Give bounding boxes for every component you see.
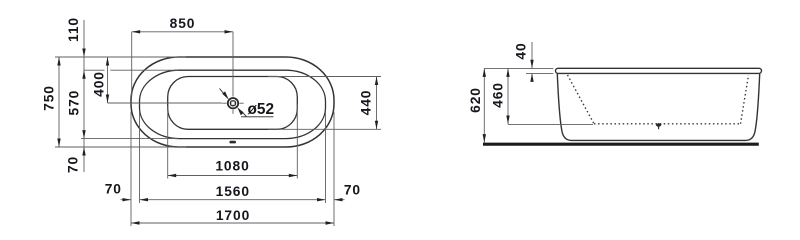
svg-text:40: 40 (513, 42, 528, 59)
extension line x139.5 (inner rim left, downwards) (139, 112, 141, 204)
svg-text:70: 70 (344, 183, 361, 198)
dimension 460 (side) (491, 68, 510, 124)
svg-text:110: 110 (66, 17, 81, 42)
dimension 70 left (plan bottom) (105, 181, 131, 201)
bathtub plan view: basin oval (168, 77, 298, 130)
extension line tub top (y57) (55, 56, 186, 58)
svg-text:1700: 1700 (216, 208, 250, 223)
extension line x167.7 (basin left, downwards) (167, 106, 169, 179)
side view: rim bar (556, 68, 762, 73)
dimension chain line 110/570/70 (plan left) (82, 20, 85, 172)
svg-text:400: 400 (91, 71, 106, 97)
side view: tub body outline (557, 74, 759, 141)
side view: floor line (483, 143, 759, 146)
bathtub plan view: outer rim oval (131, 57, 334, 147)
svg-text:1560: 1560 (216, 184, 250, 199)
extension line x131 (tub left, downwards) (130, 112, 132, 227)
side view: interior right wall (hidden, dashed) (741, 75, 749, 124)
svg-text:70: 70 (66, 156, 81, 173)
dimension 750 (plan far left) (42, 57, 61, 147)
extension line x297.3 (basin right, downwards) (296, 104, 298, 179)
dimension 400 (plan left inner) (91, 57, 109, 103)
side view: drain mark (656, 123, 661, 129)
overflow slot on rim (plan, bottom center) (229, 141, 236, 144)
dimension 1080 (plan bottom) (168, 159, 298, 178)
bathtub plan view: inner rim edge oval (140, 70, 326, 138)
extension line tub bottom (y147) (55, 146, 186, 148)
svg-text:750: 750 (42, 85, 57, 111)
svg-text:440: 440 (358, 90, 373, 116)
extension line interior bottom (side, y124) (508, 124, 593, 126)
extension line x325.5 (inner rim right, downwards) (325, 112, 327, 204)
side view: interior left wall (hidden, dashed) (568, 75, 595, 124)
dimension 850 (plan top) (132, 16, 233, 96)
leader / label ø52 (220, 89, 275, 119)
extension line inner rim top (y70.2) (84, 69, 105, 71)
dimension 70 right (plan bottom) (334, 183, 361, 202)
dimension 620 (side) (468, 68, 486, 142)
svg-text:460: 460 (491, 82, 506, 108)
svg-text:ø52: ø52 (248, 101, 275, 118)
svg-text:570: 570 (66, 90, 81, 116)
extension line x334 (tub right, downwards) (333, 112, 335, 227)
extension line rim bottom (side, y73.4) (526, 72, 553, 74)
svg-text:1080: 1080 (215, 159, 249, 174)
dimension 1560 (plan bottom) (140, 184, 326, 201)
dimension 1700 (plan bottom) (131, 208, 334, 225)
svg-text:850: 850 (170, 16, 196, 31)
extension line rim top (side, y68.4) (484, 67, 553, 69)
dimension 40 (side, rim thickness) (513, 42, 533, 82)
dimension 440 (plan right) (268, 77, 381, 130)
extension line inner rim bottom (y138.6) (81, 138, 178, 140)
side view: interior bottom (hidden, dashed) (594, 123, 741, 125)
drain symbol (plan) (222, 98, 243, 114)
extension line drain centre leftwards (y103) (108, 102, 223, 104)
svg-text:620: 620 (468, 87, 483, 113)
svg-text:70: 70 (105, 181, 122, 196)
